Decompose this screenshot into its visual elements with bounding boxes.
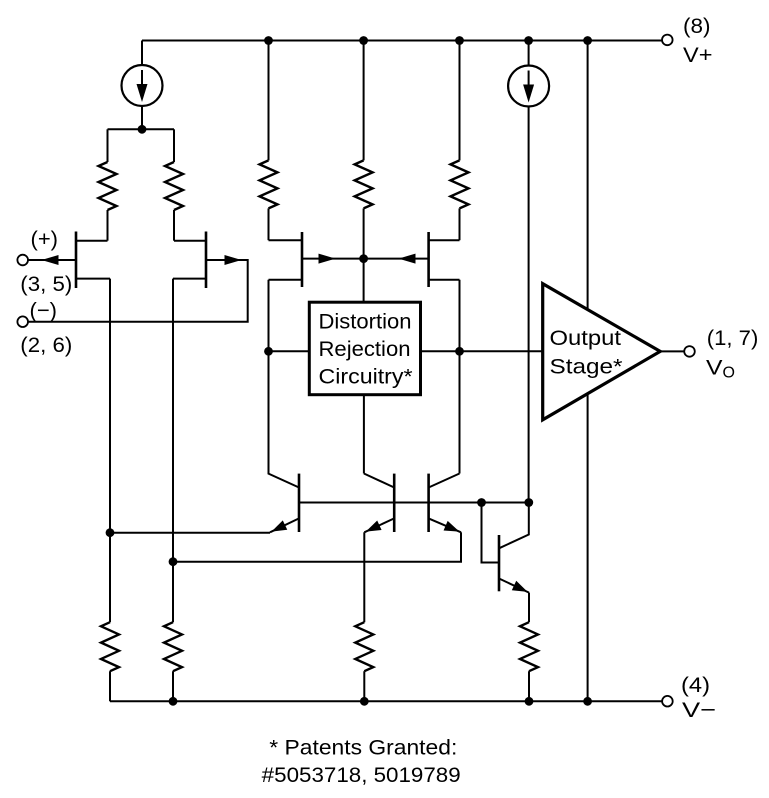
transistor Q6 collector — [364, 474, 394, 488]
current source I1 — [122, 65, 163, 106]
svg-text:(−): (−) — [30, 298, 58, 322]
wire base line — [299, 502, 529, 504]
wire I2 down — [528, 106, 530, 502]
svg-text:(8): (8) — [683, 14, 711, 38]
wire Q6 emitter down — [363, 532, 365, 622]
transistor Q1 drain lead — [76, 240, 108, 242]
terminal pin 4 — [662, 696, 673, 707]
node below I1 — [138, 125, 147, 134]
node x110 y533 — [106, 528, 115, 537]
transistor Q7 bar — [427, 474, 430, 532]
transistor Q5 emitter — [270, 518, 299, 532]
wire rail to I1 — [141, 41, 143, 66]
transistor Q3 drain lead — [269, 239, 303, 241]
transistor Q7 collector — [429, 474, 460, 488]
svg-text:* Patents Granted:: * Patents Granted: — [269, 736, 457, 760]
terminal pin out — [684, 346, 695, 357]
transistor Q3 source lead — [269, 279, 303, 281]
svg-text:(+): (+) — [31, 227, 59, 251]
node bottom junction x173 — [169, 697, 178, 706]
wire output — [660, 350, 684, 352]
transistor Q3 gate lead — [302, 258, 364, 260]
transistor Q4 drain lead — [429, 239, 460, 241]
svg-text:(1, 7): (1, 7) — [707, 326, 759, 350]
svg-text:Output: Output — [550, 326, 622, 350]
node top-rail junction x363 — [359, 36, 368, 45]
svg-text:(4): (4) — [681, 673, 710, 697]
node bottom junction x529 — [525, 697, 534, 706]
wire gate node to box — [363, 259, 365, 303]
transistor Q5 bar — [298, 474, 301, 532]
wire Q2 source down — [172, 279, 174, 623]
wire V- rail — [110, 700, 662, 702]
wire V+ rail — [142, 40, 662, 42]
svg-text:(2, 6): (2, 6) — [20, 333, 72, 357]
transistor Q6 bar — [393, 474, 396, 532]
transistor Q2 gate lead — [28, 260, 248, 322]
svg-text:#5053718, 5019789: #5053718, 5019789 — [262, 763, 461, 787]
wire node split — [108, 128, 175, 130]
current source I1 arrow — [141, 70, 143, 88]
transistor Q4 source lead — [429, 279, 460, 281]
op-amp output stage — [543, 284, 661, 420]
node top-rail junction x459 — [455, 36, 464, 45]
resistor R4 — [363, 41, 365, 161]
transistor Q7 emitter — [429, 518, 461, 532]
svg-text:Distortion: Distortion — [319, 310, 412, 334]
wire Q7 emitter down and left — [173, 532, 461, 561]
node top-rail junction x587 — [583, 36, 592, 45]
svg-text:Stage*: Stage* — [550, 355, 624, 379]
svg-text:V: V — [706, 356, 723, 380]
wire box bottom down — [363, 395, 365, 474]
terminal pin 8 — [662, 35, 673, 46]
svg-text:Rejection: Rejection — [319, 337, 411, 361]
node base junction x481 — [477, 498, 486, 507]
wire box right to output stage — [421, 350, 543, 352]
transistor Q4 gate lead — [364, 258, 429, 260]
transistor Q2 bar — [205, 232, 208, 289]
node x173 y562 — [169, 557, 178, 566]
transistor Q6 emitter — [364, 518, 394, 532]
svg-text:Circuitry*: Circuitry* — [319, 364, 414, 388]
node gate junction — [359, 254, 368, 263]
terminal pin + — [17, 255, 28, 266]
transistor Q1 source lead — [76, 278, 110, 280]
block distortion rejection circuitry — [309, 302, 420, 395]
transistor Q1 bar — [75, 232, 78, 289]
transistor Q4 bar — [427, 232, 430, 287]
wire box left — [269, 350, 310, 352]
transistor Q8 bar — [498, 535, 501, 591]
wire far-right column — [587, 41, 589, 702]
resistor R6 — [101, 622, 119, 671]
wire Q1 source down — [109, 279, 111, 623]
transistor Q8 collector — [499, 503, 529, 549]
node bottom junction x587 — [583, 697, 592, 706]
transistor Q1 gate lead — [28, 259, 76, 261]
transistor Q5 collector — [269, 474, 300, 488]
resistor R8 — [355, 622, 373, 671]
wire I1 to node — [141, 106, 143, 130]
node base junction x528 — [524, 498, 533, 507]
transistor Q3 bar — [301, 232, 304, 287]
svg-text:O: O — [723, 364, 735, 381]
wire Q3 source down — [268, 280, 270, 474]
transistor Q2 drain lead — [174, 240, 206, 242]
resistor R2 — [173, 129, 175, 162]
wire Q8 base — [482, 503, 500, 563]
transistor Q8 emitter — [499, 579, 529, 593]
resistor R5 — [459, 41, 461, 161]
resistor R1 — [107, 129, 109, 162]
wire Q4 source down — [459, 280, 461, 474]
terminal pin - — [17, 316, 28, 327]
svg-text:(3, 5): (3, 5) — [20, 272, 72, 296]
node bottom junction x364 — [360, 697, 369, 706]
current source I2 — [508, 66, 549, 107]
wire Q5 emitter to left — [110, 532, 270, 534]
resistor R3 — [268, 41, 270, 161]
node x268 y351 — [264, 347, 273, 356]
node top-rail junction x528 — [524, 36, 533, 45]
node top-rail junction x268 — [264, 36, 273, 45]
transistor Q2 source lead — [173, 278, 206, 280]
node x459 y351 — [455, 347, 464, 356]
resistor R9 — [528, 593, 530, 623]
current source I2 arrow — [528, 71, 530, 89]
wire rail to I2 — [528, 41, 530, 66]
svg-text:V−: V− — [682, 698, 716, 722]
svg-text:V+: V+ — [683, 43, 713, 67]
resistor R7 — [164, 622, 182, 671]
